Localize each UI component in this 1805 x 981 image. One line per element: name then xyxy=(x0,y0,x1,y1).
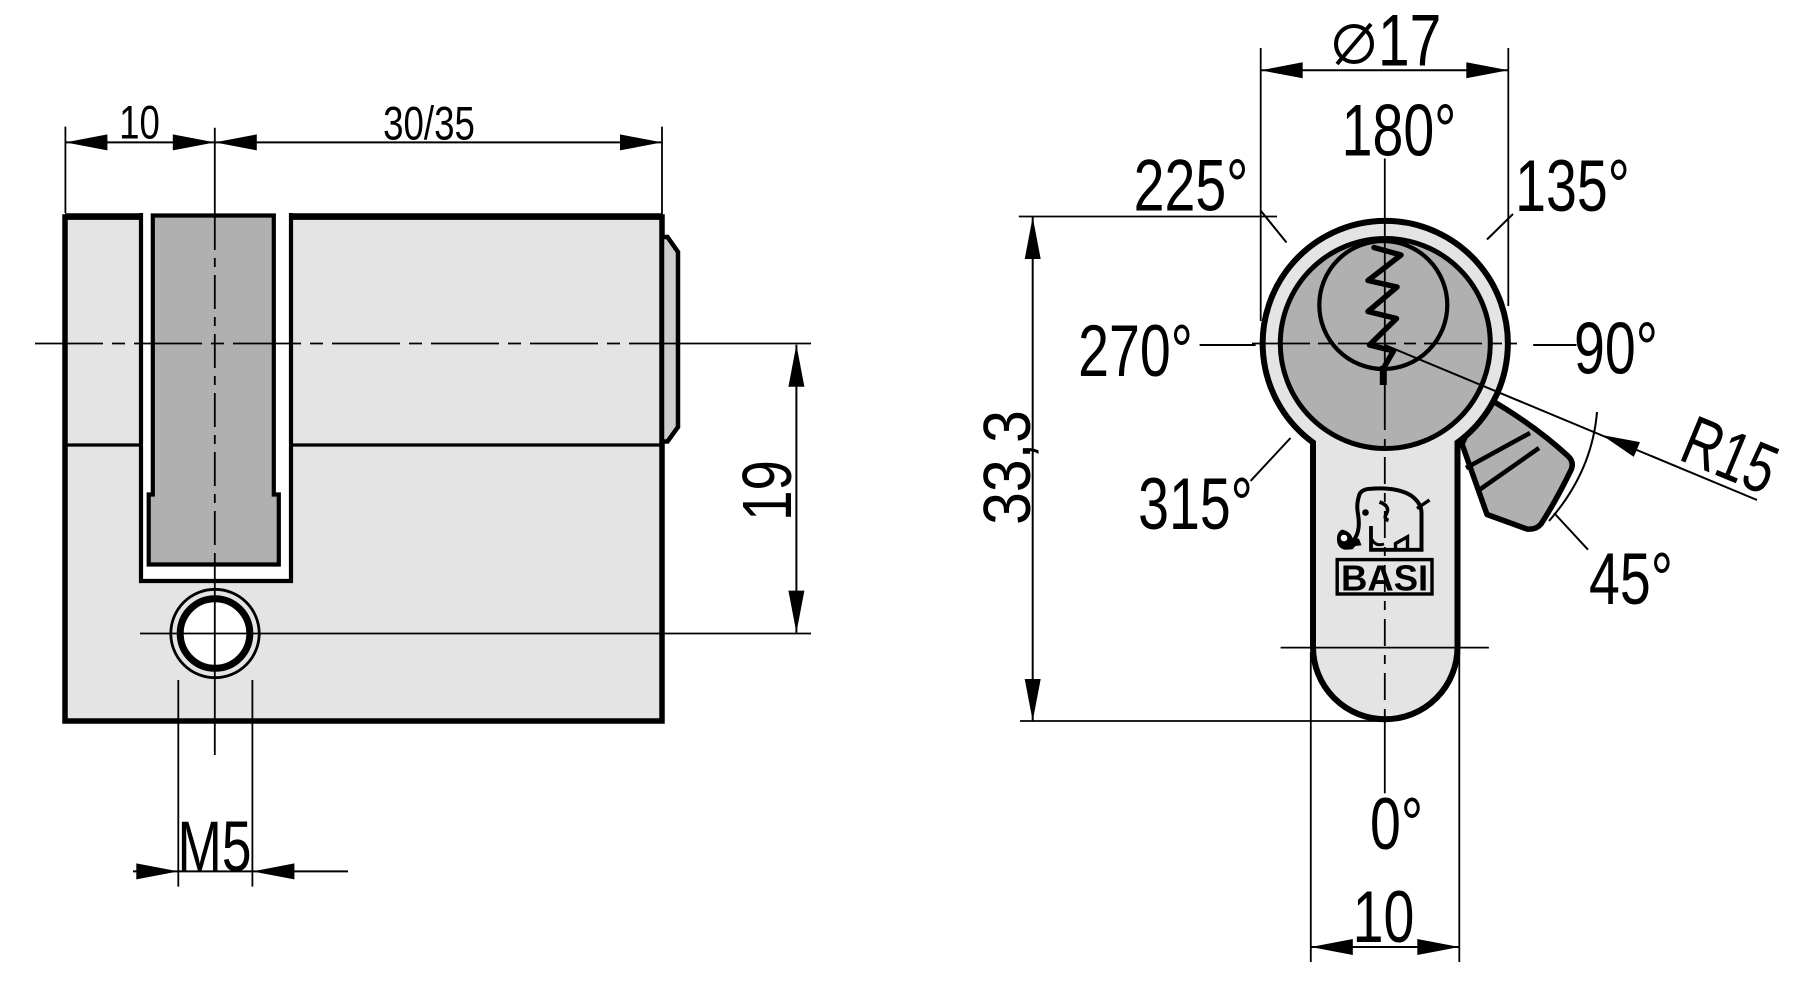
svg-text:0°: 0° xyxy=(1370,783,1423,865)
svg-text:30/35: 30/35 xyxy=(383,97,475,149)
svg-text:10: 10 xyxy=(1353,876,1415,958)
svg-text:135°: 135° xyxy=(1515,145,1630,227)
svg-text:33,3: 33,3 xyxy=(971,410,1045,525)
svg-text:M5: M5 xyxy=(178,808,252,887)
svg-text:19: 19 xyxy=(729,460,807,521)
svg-text:BASI: BASI xyxy=(1341,558,1428,599)
svg-text:180°: 180° xyxy=(1342,89,1457,171)
svg-text:10: 10 xyxy=(119,96,160,148)
svg-text:315°: 315° xyxy=(1138,463,1253,545)
svg-text:90°: 90° xyxy=(1574,307,1658,389)
svg-text:270°: 270° xyxy=(1078,310,1193,392)
svg-text:17: 17 xyxy=(1378,0,1441,81)
svg-text:225°: 225° xyxy=(1134,144,1249,226)
svg-text:45°: 45° xyxy=(1589,538,1673,620)
